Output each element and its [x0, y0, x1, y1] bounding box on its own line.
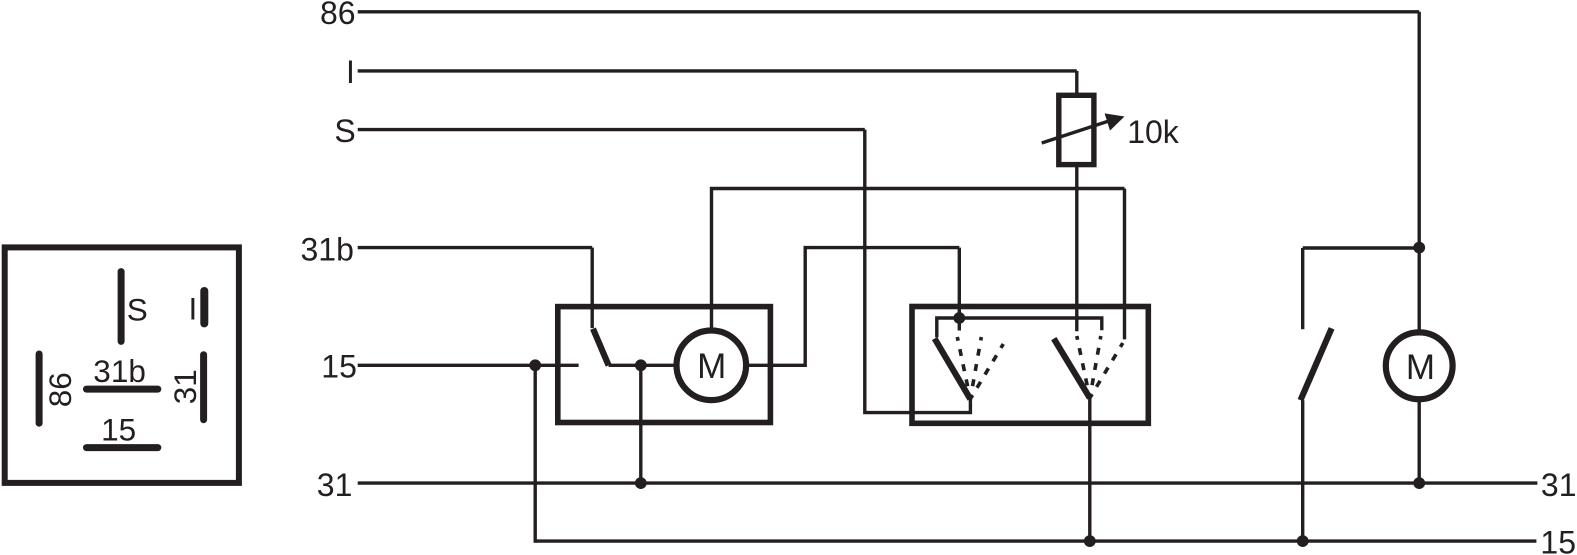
wire motor M1 right, up, right to box2 — [746, 248, 960, 366]
wire from switch 2 down to 15 bus — [1088, 398, 1091, 541]
wire from park switch to motor M1 — [609, 364, 674, 367]
wiper switch box 2 — [912, 307, 1148, 424]
washer switch arm — [1301, 328, 1332, 400]
junction dot on 31 bus — [635, 477, 647, 489]
wire motor M2 bottom to 31 bus — [1417, 399, 1420, 483]
junction dot on 15 bus at washer switch — [1297, 535, 1309, 547]
relay box 1 (wiper motor unit) — [558, 307, 771, 423]
park switch arm — [593, 329, 609, 366]
wire 31b down into relay box to park-switch pivot — [591, 248, 594, 329]
resistor arrow (variable) — [1042, 121, 1110, 143]
svg-text:15: 15 — [321, 349, 357, 385]
wire down from 247.6 to internal node — [958, 248, 961, 318]
junction dot inside box1 — [635, 359, 647, 371]
pin 15 bar — [87, 444, 158, 451]
wiper switch 1 sweep dashes — [957, 337, 1003, 399]
wiper switch 1 arm — [935, 339, 971, 399]
wire I horizontal — [358, 69, 1077, 72]
svg-text:86: 86 — [320, 0, 356, 31]
svg-text:M: M — [697, 347, 726, 386]
junction dot M2/31 bus — [1413, 477, 1425, 489]
wiper switch 2 arm — [1054, 339, 1090, 398]
wire motor M1 top up and right — [712, 189, 1125, 331]
svg-text:31b: 31b — [93, 353, 146, 389]
resistor arrow head — [1105, 113, 1125, 130]
pin 31 bar — [200, 355, 207, 420]
washer switch bottom wire to 15 bus — [1301, 400, 1304, 541]
pin 86 bar — [36, 354, 43, 423]
wire 31b horizontal — [358, 246, 593, 249]
resistor R 10k body — [1059, 95, 1094, 164]
resistor wire from I into box2 — [1075, 165, 1078, 332]
wire branch down from box1 to 31 bus — [639, 365, 642, 483]
svg-text:I: I — [346, 54, 355, 90]
wire right of y188 down into wiper box — [1123, 189, 1126, 340]
wire S down, right, up to wiper switch 1 — [865, 130, 971, 413]
svg-text:86: 86 — [42, 372, 78, 407]
svg-text:S: S — [127, 292, 148, 328]
pin S bar — [118, 272, 125, 342]
contact stub below dot — [958, 318, 961, 331]
svg-text:31: 31 — [167, 369, 203, 404]
junction dot on internal bus — [953, 312, 965, 324]
svg-text:31b: 31b — [301, 231, 354, 267]
relay connector pinout box — [5, 247, 239, 483]
junction dot on 86 vertical — [1413, 242, 1425, 254]
svg-text:I: I — [189, 290, 198, 326]
pin I bar — [200, 291, 208, 323]
internal bus in box2 — [937, 318, 1102, 337]
wire 86 horizontal — [358, 10, 1420, 13]
motor M1 circle — [677, 331, 747, 401]
junction dot 15/branch — [529, 359, 541, 371]
wire I down to resistor — [1075, 71, 1078, 95]
junction dot on 15 bus — [1084, 535, 1096, 547]
washer switch top stub — [1301, 248, 1304, 329]
washer motor M2 circle — [1386, 332, 1453, 399]
wire S horizontal — [358, 128, 865, 131]
wire 15 branch down from junction — [535, 365, 537, 541]
wire 15 bus bottom horizontal — [535, 539, 1536, 542]
wire 31 bus horizontal — [358, 481, 1538, 484]
wiper switch 2 sweep dashes — [1077, 336, 1123, 398]
svg-text:15: 15 — [101, 412, 136, 448]
svg-text:10k: 10k — [1127, 114, 1180, 150]
pin 31b bar — [87, 386, 158, 393]
wire 86 vertical down to washer motor — [1417, 12, 1420, 330]
svg-text:15: 15 — [1540, 525, 1576, 555]
svg-text:31: 31 — [317, 467, 353, 503]
wire 15 horizontal to park-switch fixed contact — [358, 364, 579, 367]
svg-text:M: M — [1406, 348, 1435, 387]
svg-text:S: S — [334, 113, 355, 149]
washer switch branch wire — [1303, 246, 1420, 249]
svg-text:31: 31 — [1541, 467, 1577, 503]
